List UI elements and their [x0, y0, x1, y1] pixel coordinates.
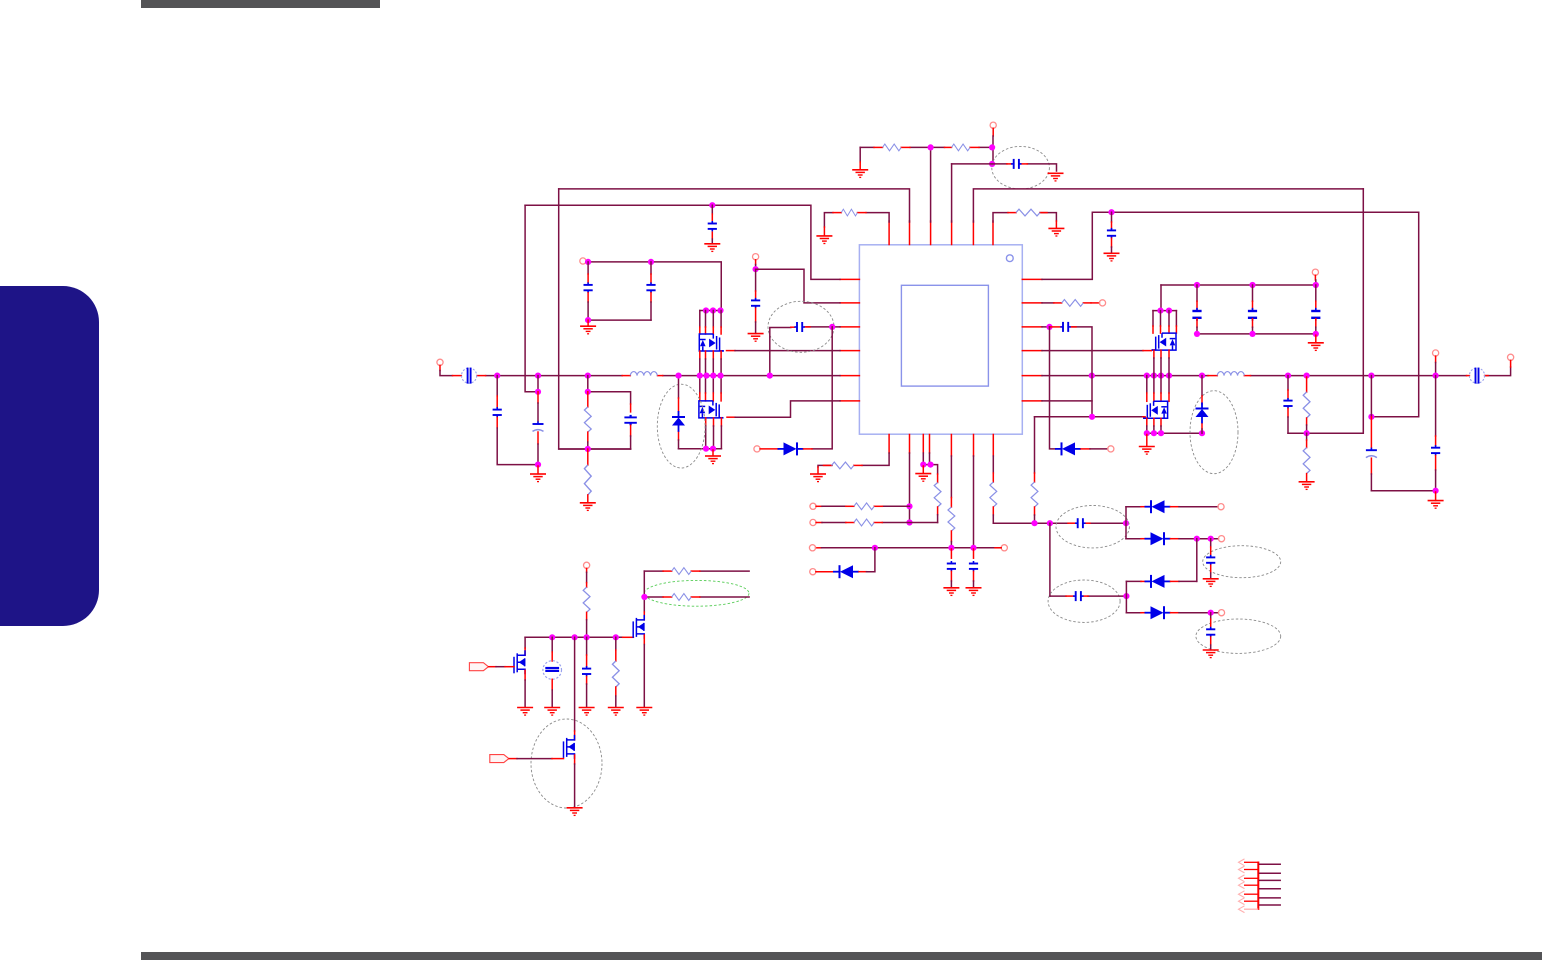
wire pins B3 B4 tie — [923, 453, 937, 474]
capacitor C24 column B5 — [950, 549, 952, 558]
junction dot — [906, 503, 912, 509]
ellipse around C3 top — [992, 146, 1050, 189]
terminal row1 left — [810, 503, 816, 509]
junction dot — [572, 634, 578, 640]
junction dot — [1123, 593, 1129, 599]
wire x=1363 vertical — [1288, 189, 1363, 433]
node T4 riser wire — [951, 164, 953, 222]
wire terminal to diode — [760, 448, 778, 450]
footer bar — [141, 952, 1542, 960]
junction dot — [703, 373, 709, 379]
node T3 riser wire — [930, 147, 932, 222]
wire rail y=189 right — [973, 189, 1363, 222]
terminal D9 row — [1108, 446, 1114, 452]
transistor Q5 NMOS — [643, 612, 645, 620]
capacitor C5 lower lead — [1111, 238, 1113, 247]
inductor L3 leads — [1208, 375, 1217, 377]
ground — [852, 170, 868, 178]
resistor R5 column — [587, 392, 589, 407]
inductor L1 — [630, 372, 657, 376]
terminal top — [990, 122, 996, 128]
diode row1 y=506.7 — [1126, 506, 1141, 508]
junction dots rail285 — [1194, 282, 1200, 288]
terminal pin R2 — [1099, 300, 1105, 306]
wire Q3 drain columns — [1153, 311, 1176, 326]
wire x=1049.9 drop — [1049, 523, 1051, 596]
ground — [816, 236, 832, 244]
diode D4 — [1145, 532, 1171, 545]
wire pin B6 column — [973, 456, 975, 548]
wire Q3 gate from pin R4 — [1042, 350, 1143, 352]
resistor R12 — [832, 462, 854, 469]
resistor R13 leads — [846, 505, 854, 507]
connector J1 bottom pin — [1244, 908, 1258, 910]
wire pin B2 column — [909, 453, 911, 523]
terminal D8 row — [810, 569, 816, 575]
ground — [567, 808, 583, 816]
U1 right pin stubs — [1022, 279, 1042, 401]
junction dot — [675, 373, 681, 379]
ground — [704, 244, 720, 252]
junction dot — [648, 259, 654, 265]
wire x=1161 riser — [1160, 285, 1162, 311]
wire to ground — [1315, 335, 1317, 342]
diode D8 — [833, 565, 859, 578]
junction dot — [1144, 430, 1150, 436]
resistor R12 leads — [824, 464, 832, 466]
wire T1 riser and resistor row y=212.6 — [824, 213, 889, 227]
U1 top pin stubs — [889, 221, 993, 245]
wire pin R2 row — [1042, 302, 1054, 304]
junction dot — [585, 446, 591, 452]
capacitor C3 — [1011, 159, 1021, 169]
capacitor C13 — [1060, 322, 1070, 332]
connector J1 left pins — [1244, 862, 1258, 901]
junction dot — [753, 266, 759, 272]
junction dot — [585, 373, 591, 379]
wire rail y=285 — [1161, 284, 1316, 286]
junction dot — [703, 307, 709, 313]
wire Q1 gate to pin L4 — [727, 350, 736, 352]
diode D7 column from bus — [1201, 376, 1203, 396]
resistor R1 — [883, 144, 902, 151]
wire Q3 source columns to bus — [1154, 350, 1169, 358]
wire to ground — [817, 467, 819, 474]
wire terminal drop — [586, 568, 588, 572]
ellipse around D1 — [657, 384, 705, 468]
wire to pin L2 — [756, 269, 840, 303]
junction dot — [989, 144, 995, 150]
wire bus right segment — [1042, 367, 1511, 376]
wire x=1196.8 drop — [1196, 539, 1198, 582]
ground — [530, 474, 546, 482]
junction dot — [710, 373, 716, 379]
capacitor C6 column — [587, 262, 589, 274]
capacitor C19 column — [1252, 285, 1254, 301]
capacitor C11 column x=538 polarized — [537, 376, 539, 392]
ground — [580, 326, 596, 334]
terminal row4 — [1218, 610, 1224, 616]
capacitor C23 column x=1435.6 — [1435, 376, 1437, 436]
wire cap2 row y=596.1 — [1050, 595, 1127, 597]
ground — [705, 456, 721, 464]
green ellipse — [644, 580, 749, 606]
wire terminal drop — [439, 365, 441, 370]
wire Q1 source columns to bus — [700, 351, 721, 359]
feed-through FB2 leads — [1467, 375, 1470, 377]
junction dots rail335 — [1194, 331, 1200, 337]
ellipse around C15 — [1048, 580, 1120, 622]
wire Q5 source to ground — [643, 635, 645, 645]
resistor R8 column x=1034.5 — [1034, 417, 1036, 473]
IC U1 outer body — [859, 245, 1022, 434]
diode D2 right lead — [804, 448, 813, 450]
junction dot — [970, 545, 976, 551]
terminal cluster rail — [1312, 269, 1318, 275]
wire D8 row y=571.7 — [816, 571, 834, 573]
wire pin L3 cap row — [770, 327, 840, 376]
wire x=832 drop to diode row — [812, 327, 832, 449]
junction dot — [1047, 520, 1053, 526]
wire Q4 drain columns below bus — [1147, 376, 1169, 393]
wire to ground — [587, 320, 589, 326]
wire rail y=335.2 — [1197, 333, 1316, 335]
wire to ground — [551, 679, 553, 690]
junction dot — [549, 634, 555, 640]
resistor R13 — [854, 503, 874, 510]
terminal row2 — [1218, 536, 1224, 542]
wire Q4 gate lead — [1143, 416, 1145, 418]
wire flag to gate — [489, 666, 496, 668]
diode row2 y=538.7 — [1126, 538, 1141, 540]
junction dot — [1433, 488, 1439, 494]
ground — [1104, 253, 1120, 261]
junction dot — [1166, 308, 1172, 314]
junction dot — [584, 634, 590, 640]
resistor R9 column x=993.3 (pin B7) — [992, 456, 994, 473]
wire Q7 source to ground — [574, 755, 576, 764]
wire row1 y=506.3 — [816, 505, 822, 507]
junction dot — [535, 373, 541, 379]
diode D1 column from bus — [678, 376, 680, 398]
resistor R18 — [672, 568, 692, 575]
battery-cap BT1 — [543, 661, 562, 680]
ground — [1428, 501, 1444, 509]
wire rail y=433.2 — [1147, 432, 1202, 434]
ellipse around C16 — [1203, 546, 1281, 578]
junction dot — [1046, 324, 1052, 330]
junction dot — [703, 446, 709, 452]
junction dot — [1158, 430, 1164, 436]
capacitor C22 column x=1371.4 polarized — [1370, 376, 1372, 417]
junction dot — [1157, 308, 1163, 314]
capacitor C12 column x=630.6 — [630, 404, 632, 412]
diode row3 y=581.4 — [1126, 580, 1141, 582]
capacitor C4 lower lead — [711, 232, 713, 239]
terminal above x=1435.6 — [1433, 350, 1439, 356]
IC U1 pin-1 marker — [1006, 255, 1013, 262]
ground — [915, 474, 931, 482]
terminal bus left — [437, 359, 443, 365]
ellipse around Q7 — [531, 719, 602, 808]
ground — [810, 474, 826, 482]
capacitor C18 column — [1196, 285, 1198, 301]
wire long vertical x=525.1 — [525, 205, 538, 392]
wire rail y=189 left — [559, 189, 910, 222]
wire rail VCC top y=147 — [860, 146, 992, 148]
transistor Q1 dual PMOS — [699, 334, 724, 351]
junction dot — [717, 373, 723, 379]
ground — [636, 708, 652, 716]
resistor R4 — [1016, 209, 1040, 216]
wire to ground — [1435, 492, 1437, 500]
wire row y=416.8 — [1035, 416, 1144, 418]
wire to ground — [1146, 435, 1148, 447]
connector J1 right leads — [1260, 864, 1281, 905]
capacitor C14 leads — [1068, 522, 1075, 524]
ground — [1203, 579, 1219, 587]
capacitor C4 drop wire — [711, 205, 713, 214]
terminal D2 row — [754, 446, 760, 452]
junction dot — [906, 519, 912, 525]
wire row B y=597 — [644, 596, 749, 598]
wire row2 y=522.5 — [816, 522, 822, 524]
junction dot — [710, 307, 716, 313]
wire rail y=490.7 — [1371, 490, 1435, 492]
resistor R2 — [952, 144, 971, 151]
capacitor C8 column — [755, 269, 757, 291]
wire pin R3 row — [1042, 327, 1092, 417]
junction dot — [927, 462, 933, 468]
terminal x=586.6 — [584, 562, 590, 568]
wire Q2 source columns to rail y=448.7 — [706, 418, 722, 426]
wire rail y=637.3 — [525, 636, 623, 638]
junction dot — [717, 307, 723, 313]
bus junction dots right — [1089, 373, 1095, 379]
junction dot — [948, 545, 954, 551]
inductor L3 — [1217, 372, 1244, 376]
ellipse around C9 — [768, 301, 834, 352]
wire Q7 drain column — [574, 637, 576, 731]
capacitor C15 leads — [1066, 595, 1073, 597]
ground — [608, 708, 624, 716]
input flag F2 — [490, 755, 509, 763]
junction dot — [920, 462, 926, 468]
capacitor C5 — [1107, 228, 1116, 238]
junction dot — [613, 634, 619, 640]
resistor R18 leads — [663, 570, 672, 572]
terminal row2 left — [810, 519, 816, 525]
wire rail y=212 right — [1042, 212, 1419, 279]
wire long vertical x=558.7 — [559, 189, 631, 449]
wire x=1126 risers — [1125, 507, 1127, 613]
capacitor C21 column x=1288 — [1287, 376, 1289, 390]
connector J1 spine — [1257, 862, 1259, 911]
feed-through FB1 — [462, 368, 477, 384]
junction dot — [1208, 610, 1214, 616]
wire cluster top rail y=310.5 — [700, 310, 721, 312]
wire cap row y=164 — [952, 164, 1057, 171]
diode D1 — [672, 411, 685, 432]
wire Q3 top rail y=310.6 — [1153, 310, 1176, 312]
wire stub to ground left of R1 — [859, 147, 861, 162]
terminal rail548 left — [809, 545, 815, 551]
terminal bus right — [1508, 354, 1514, 360]
wire to ground — [1055, 221, 1057, 228]
resistor R19 — [672, 594, 692, 601]
wire terminal riser — [1510, 360, 1512, 367]
wire rail y=262 — [586, 262, 721, 311]
capacitor C3 leads — [1007, 163, 1011, 165]
wire terminal drop — [755, 260, 757, 265]
ground — [579, 708, 595, 716]
resistor R19 leads — [663, 596, 672, 598]
capacitor C26 column x=586.6 — [586, 637, 588, 655]
diode row4 y=612.7 — [1126, 612, 1141, 614]
junction dot — [1304, 430, 1310, 436]
resistor R10 column x=1306.6 — [1306, 377, 1308, 392]
wire to ground — [537, 466, 539, 474]
diode D3 — [1145, 500, 1171, 513]
transistor Q4 dual PMOS — [1143, 401, 1168, 418]
ground — [517, 708, 533, 716]
input flag F1 — [469, 663, 488, 671]
ground — [1308, 343, 1324, 351]
junction dot — [1368, 414, 1374, 420]
transistor Q2 dual PMOS — [699, 401, 724, 418]
ground — [544, 708, 560, 716]
transistor Q6 NMOS — [524, 637, 526, 648]
capacitor C15 — [1073, 591, 1083, 601]
wire flag to gate — [509, 758, 517, 760]
capacitor C9 leads — [791, 326, 795, 328]
wire rail y=523.2 — [993, 522, 1126, 524]
junction dot — [585, 259, 591, 265]
ground — [1048, 228, 1064, 236]
diode D6 — [1145, 606, 1171, 619]
capacitor C25 column B6 — [973, 549, 975, 558]
inductor L1 leads — [622, 375, 630, 377]
resistor R6 column to ground — [587, 449, 589, 465]
resistor R3 leads — [833, 212, 841, 214]
junction dot — [1089, 414, 1095, 420]
junction dot — [697, 373, 703, 379]
wire pin B1 to resistor row y=465.4 — [818, 453, 889, 467]
U1 left pin stubs — [840, 279, 859, 401]
terminal sub B — [753, 254, 759, 260]
wire x=1049.5 drop to diode row — [1050, 327, 1056, 449]
junction dot — [1123, 520, 1129, 526]
ground — [1048, 173, 1064, 181]
ground — [1203, 650, 1219, 658]
diode D9 — [1055, 442, 1081, 455]
capacitor C10 column x=497 — [496, 376, 498, 396]
ground — [580, 503, 596, 511]
resistor R15 column x=937.6 — [937, 474, 939, 483]
resistor R1 leads — [874, 146, 883, 148]
wire rail y=547.8 — [816, 547, 822, 549]
IC U1 inner die — [901, 285, 988, 386]
wire Q6 source to ground — [524, 670, 526, 680]
resistor R17 column — [586, 583, 588, 588]
resistor R4 leads — [1008, 212, 1016, 214]
wire Q1 drain columns — [700, 311, 721, 328]
wire terminal drop — [1435, 356, 1437, 362]
wire terminal drop — [1314, 275, 1316, 280]
wire rail y=320 — [588, 319, 651, 321]
header bar — [141, 0, 380, 8]
connector J1 chevrons — [1239, 859, 1245, 913]
wire bus left segment — [486, 375, 840, 377]
terminal rail548 right — [1001, 545, 1007, 551]
junction dot — [1031, 520, 1037, 526]
resistor R20 column x=615.8 — [615, 637, 617, 650]
U1 bottom pin stubs — [889, 435, 993, 457]
wire rail y=449 — [559, 448, 631, 450]
resistor R14 — [854, 519, 874, 526]
resistor R14 leads — [846, 522, 854, 524]
ellipse around C17 — [1196, 619, 1281, 653]
battery-cap BT1 column — [551, 637, 553, 652]
capacitor C16 column — [1210, 539, 1212, 547]
wire rail y=448.7 — [679, 448, 722, 450]
wire Q4 source columns to rail y=433.2 — [1147, 418, 1161, 426]
ellipse around D7 — [1190, 391, 1238, 474]
wire terminal drop — [992, 128, 994, 136]
left navy tab — [0, 286, 99, 626]
diode D9 right lead — [1081, 448, 1090, 450]
junction dot — [535, 462, 541, 468]
junction dot — [710, 446, 716, 452]
ground — [748, 334, 764, 342]
ground — [943, 588, 959, 596]
resistor R7 leads — [1054, 302, 1062, 304]
capacitor C9 — [794, 322, 804, 332]
terminal sub A — [580, 258, 586, 264]
resistor R16 column x=951.4 (pin B5) — [950, 456, 952, 498]
wire to ground — [823, 227, 825, 236]
wire x=1418.7 vertical — [1371, 212, 1418, 417]
wire T6 riser and resistor row y=212.6 right — [993, 213, 1056, 222]
wire Q2 drain columns below bus — [700, 376, 721, 393]
junction dot — [641, 594, 647, 600]
wire Q2 gate row y=417.2 — [727, 416, 735, 418]
junction dot — [767, 373, 773, 379]
junction dot — [1194, 536, 1200, 542]
ground — [966, 588, 982, 596]
junction dot — [928, 144, 934, 150]
capacitor C4 — [708, 221, 717, 231]
capacitor C7 column — [650, 262, 652, 274]
transistor Q3 dual PMOS — [1152, 333, 1177, 350]
junction dot — [989, 161, 995, 167]
wire rail y=205 — [525, 205, 840, 279]
transistor Q7 NMOS — [564, 735, 575, 759]
wire loop rail y=391.8 and resistor x=587.8 — [588, 376, 631, 404]
wire row A y=571.1 — [644, 570, 749, 572]
junction dot — [1208, 536, 1214, 542]
junction dot — [829, 324, 835, 330]
ground — [1139, 447, 1155, 455]
junction dot — [494, 373, 500, 379]
resistor R11 column to ground — [1306, 433, 1308, 440]
junction dot — [709, 202, 715, 208]
capacitor C5 drop wire — [1111, 212, 1113, 222]
wire to ground — [922, 466, 924, 473]
resistor R3 — [841, 209, 857, 216]
capacitor C13 leads — [1050, 326, 1061, 328]
junction dot — [872, 545, 878, 551]
